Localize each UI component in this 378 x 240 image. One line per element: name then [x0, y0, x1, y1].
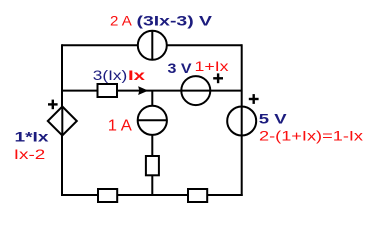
dependent source E1 1*Ix (diamond, left): [48, 107, 77, 136]
resistor R1 3(Ix): [98, 84, 118, 97]
wire right vertical: [241, 44, 243, 196]
wire middle vertical: [151, 91, 153, 195]
resistor R3 (bottom left): [98, 189, 117, 202]
svg-text:1 A: 1 A: [108, 118, 132, 135]
resistor R2 (middle vertical): [146, 156, 159, 175]
wire left vertical: [61, 44, 63, 196]
current arrow Ix: [139, 87, 147, 94]
wire bottom horizontal: [61, 194, 243, 196]
voltage source V1 3 V: [181, 76, 210, 105]
svg-text:1+Ix: 1+Ix: [195, 58, 229, 74]
svg-text:Ix-2: Ix-2: [14, 146, 46, 162]
svg-text:3(Ix): 3(Ix): [93, 67, 128, 83]
plus sign above V2: [249, 94, 259, 104]
wire middle horizontal: [62, 90, 242, 92]
svg-text:5 V: 5 V: [259, 111, 288, 127]
current source I1 2 A (top): [138, 31, 167, 60]
current source I2 1 A (middle): [138, 106, 167, 135]
voltage source V2 5 V (right): [227, 107, 256, 136]
svg-text:3 V: 3 V: [168, 60, 193, 76]
svg-text:2-(1+Ix)=1-Ix: 2-(1+Ix)=1-Ix: [259, 128, 363, 144]
plus sign above diamond E1: [48, 100, 58, 110]
svg-text:2 A: 2 A: [110, 13, 133, 29]
svg-text:(3Ix-3) V: (3Ix-3) V: [137, 13, 213, 29]
wire top horizontal: [62, 44, 242, 46]
svg-text:1*Ix: 1*Ix: [15, 129, 49, 145]
resistor R4 (bottom right): [188, 189, 207, 202]
plus sign near V1: [213, 73, 223, 83]
svg-text:Ix: Ix: [128, 67, 145, 83]
